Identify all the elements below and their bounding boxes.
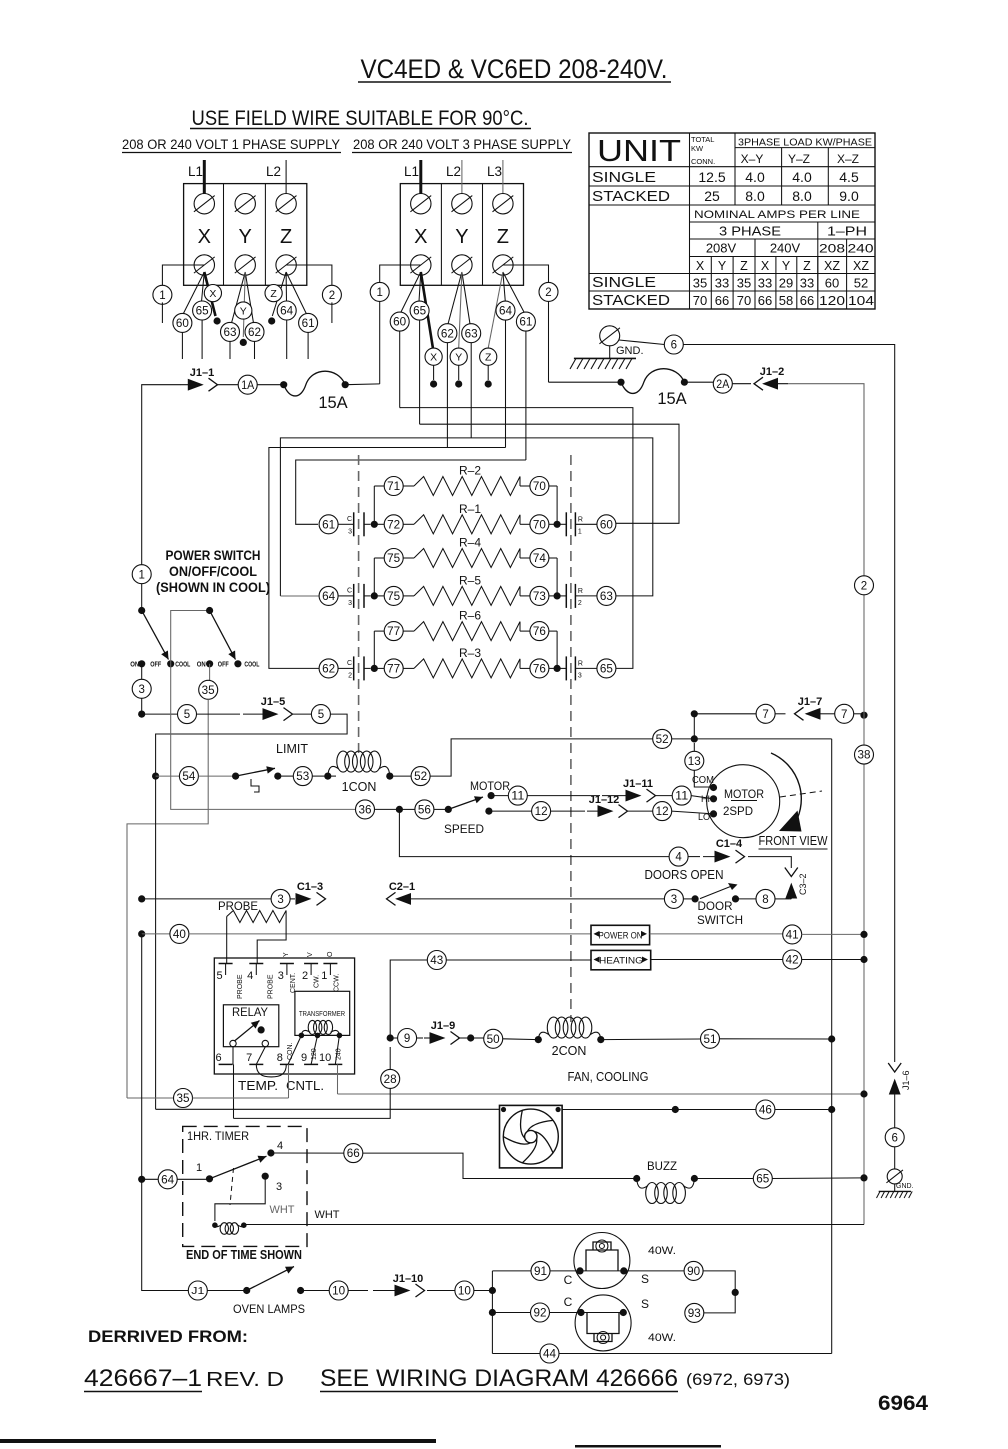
wire 35 down to corner then left-down (gray) bbox=[127, 699, 208, 1098]
label C1-3 bbox=[297, 881, 323, 893]
label Y (rot) bbox=[283, 952, 290, 957]
wire X screw to node 1 (3ph) bbox=[380, 265, 421, 283]
svg-text:52: 52 bbox=[854, 276, 868, 291]
svg-text:63: 63 bbox=[224, 327, 237, 339]
label 40W. (lamp2) bbox=[648, 1332, 676, 1344]
wire top row ends down bbox=[374, 631, 557, 668]
speed switch blade bbox=[448, 796, 483, 809]
node 71 (row) bbox=[384, 477, 530, 496]
label CCW. (rot) bbox=[334, 974, 341, 992]
wire motor box right edge down bbox=[831, 739, 833, 1039]
wire 36-junction down to 4-row bbox=[399, 809, 669, 856]
svg-text:PROBE: PROBE bbox=[268, 974, 275, 999]
wire 43 left corner down bbox=[387, 960, 428, 1042]
label REV. D bbox=[206, 1369, 284, 1391]
limit switch blade bbox=[236, 766, 275, 776]
junction dot right bbox=[549, 521, 566, 528]
node 35 (below S2) bbox=[199, 680, 218, 699]
svg-text:GND.: GND. bbox=[616, 345, 644, 357]
border bar bottom middle bbox=[575, 1445, 721, 1448]
node 50 bbox=[484, 1029, 503, 1048]
svg-text:1A: 1A bbox=[241, 380, 254, 392]
node 10 (right) bbox=[427, 1281, 474, 1300]
node 2 (3ph) bbox=[539, 282, 558, 301]
node 65 (buzz) bbox=[694, 1169, 772, 1188]
label ON/OFF/COOL bbox=[169, 564, 257, 579]
screw Z top (1ph) bbox=[276, 194, 297, 214]
label CON. (rot) bbox=[287, 1042, 294, 1060]
wire 64 feed horizontal bbox=[280, 595, 319, 597]
wire 5-row left bbox=[142, 713, 178, 715]
wire fan Z to 64 (1ph) bbox=[285, 272, 287, 302]
svg-text:C: C bbox=[347, 660, 352, 667]
svg-text:2: 2 bbox=[302, 970, 308, 982]
wire 10 to lamp splits bbox=[474, 1287, 496, 1294]
node 63 (bank output) bbox=[575, 586, 616, 605]
svg-text:FAN, COOLING: FAN, COOLING bbox=[568, 1070, 649, 1084]
wire Y down (1ph, gray) bbox=[240, 272, 247, 346]
node 72 (row) bbox=[384, 515, 530, 534]
svg-text:CENT.: CENT. bbox=[290, 973, 297, 993]
svg-text:O: O bbox=[327, 951, 334, 957]
label 15A (left fuse) bbox=[318, 394, 347, 412]
label Z (1ph) bbox=[280, 226, 292, 248]
label X (1ph) bbox=[198, 226, 211, 248]
coil 2CON bbox=[538, 1017, 604, 1043]
terminal 9 (temp cntl bottom) bbox=[301, 1052, 318, 1064]
svg-text:X: X bbox=[430, 351, 437, 363]
svg-text:X: X bbox=[209, 288, 216, 300]
svg-text:3: 3 bbox=[278, 970, 284, 982]
svg-text:R–5: R–5 bbox=[459, 573, 481, 587]
svg-text:J1–11: J1–11 bbox=[623, 778, 653, 790]
node 65 (1ph) bbox=[193, 301, 212, 359]
fuse F2 15A bbox=[617, 369, 688, 394]
svg-text:62: 62 bbox=[322, 664, 335, 676]
label POWER SWITCH bbox=[166, 548, 261, 563]
svg-text:76: 76 bbox=[533, 664, 546, 676]
label MOTOR bbox=[724, 787, 764, 801]
svg-text:1HR. TIMER: 1HR. TIMER bbox=[187, 1131, 249, 1143]
label S (lamp2) bbox=[641, 1297, 649, 1311]
svg-text:R–3: R–3 bbox=[459, 646, 481, 660]
svg-text:Z: Z bbox=[740, 259, 748, 273]
node 60 (bank output) bbox=[575, 515, 616, 534]
wire J1-2 to right bus A bbox=[789, 384, 864, 580]
timer pivot (contact 1) bbox=[196, 1162, 213, 1182]
node 70 (row) bbox=[530, 477, 549, 496]
svg-text:65: 65 bbox=[196, 306, 209, 318]
svg-text:4: 4 bbox=[277, 1140, 283, 1152]
label ON (S2) bbox=[197, 661, 206, 668]
label X (3ph) bbox=[414, 226, 427, 248]
wire from J1-1 corner to left bus bbox=[142, 385, 181, 565]
svg-text:54: 54 bbox=[182, 771, 196, 783]
wire 54 to limit switch bbox=[198, 775, 235, 777]
wire J1-9 to 50 bbox=[458, 1034, 484, 1041]
node 74 (row) bbox=[530, 549, 549, 568]
svg-text:25: 25 bbox=[704, 188, 720, 204]
wire drop 65 to H2 bbox=[419, 320, 421, 424]
junction dot 64-row bbox=[138, 1176, 145, 1183]
svg-text:92: 92 bbox=[534, 1308, 547, 1320]
motor shaft dashed bbox=[780, 791, 822, 797]
node Z (3ph) bbox=[480, 348, 497, 388]
svg-text:C2–1: C2–1 bbox=[389, 881, 415, 893]
svg-text:120: 120 bbox=[819, 293, 845, 308]
svg-text:R–1: R–1 bbox=[459, 502, 481, 516]
svg-text:CNTL.: CNTL. bbox=[286, 1079, 324, 1093]
wire fan Z to 61 (3ph) bbox=[503, 272, 525, 313]
node Z (1ph) bbox=[265, 285, 282, 302]
svg-text:9.0: 9.0 bbox=[839, 188, 859, 204]
junction dot right bbox=[549, 592, 566, 599]
svg-text:J1–2: J1–2 bbox=[760, 366, 784, 378]
svg-text:72: 72 bbox=[387, 519, 400, 531]
timer contact 4 bbox=[267, 1140, 283, 1157]
svg-text:Y: Y bbox=[455, 226, 468, 248]
relay wiring to terminals bbox=[233, 1047, 286, 1077]
switch S1 blade to COOL bbox=[142, 611, 169, 660]
box 1HR TIMER (dashed) bbox=[183, 1126, 307, 1246]
ground hatch (supply) bbox=[570, 346, 636, 369]
svg-text:52: 52 bbox=[656, 734, 669, 746]
svg-text:90: 90 bbox=[687, 1266, 700, 1278]
label GND. bbox=[616, 345, 644, 357]
wire 7-row bbox=[694, 713, 756, 715]
svg-text:HEATING: HEATING bbox=[599, 956, 643, 967]
lamp2 terminals bbox=[577, 1309, 627, 1316]
svg-text:X: X bbox=[198, 226, 211, 248]
ground screw GND bbox=[599, 326, 619, 346]
label MOTOR (switch) bbox=[470, 779, 510, 793]
label ON (S1) bbox=[130, 661, 139, 668]
svg-text:SINGLE: SINGLE bbox=[592, 275, 656, 291]
junction dot 40-row on left bus bbox=[138, 930, 145, 937]
svg-text:35: 35 bbox=[693, 276, 707, 291]
svg-text:208 OR 240 VOLT 1 PHASE SUPPLY: 208 OR 240 VOLT 1 PHASE SUPPLY bbox=[122, 137, 340, 152]
svg-text:41: 41 bbox=[786, 930, 799, 942]
label C3-2 (rotated) bbox=[798, 873, 808, 895]
label 2SPD bbox=[723, 804, 753, 818]
svg-text:DOORS OPEN: DOORS OPEN bbox=[645, 868, 724, 882]
node 5 (left) bbox=[178, 705, 197, 724]
label COOL (S2) bbox=[244, 661, 260, 668]
label WHT (inner) bbox=[270, 1204, 295, 1216]
svg-text:8: 8 bbox=[277, 1052, 283, 1064]
wire fan Z to 61 (1ph) bbox=[286, 272, 306, 314]
wire 66 to buzz row bbox=[363, 1153, 637, 1178]
node Y (1ph) bbox=[235, 302, 252, 319]
wire 52 to motor box corner bbox=[672, 735, 832, 742]
svg-text:63: 63 bbox=[600, 591, 613, 603]
label 40W. (lamp1) bbox=[648, 1245, 676, 1257]
speed switch pivot bbox=[434, 806, 452, 813]
svg-text:3: 3 bbox=[276, 1181, 282, 1193]
wire to J1-5 bbox=[197, 713, 241, 715]
wire fan Z to 64 (3ph) bbox=[503, 272, 505, 302]
node 52 (coil side) bbox=[390, 767, 430, 786]
wire 13 to COM bbox=[692, 770, 714, 787]
contact dot (lamp switch) bbox=[297, 1287, 304, 1294]
screw Z bottom (3ph) bbox=[492, 255, 513, 275]
label 240 (rot) bbox=[335, 1048, 342, 1060]
svg-text:3PHASE LOAD KW/PHASE: 3PHASE LOAD KW/PHASE bbox=[738, 137, 872, 149]
contact ON dot (S2) bbox=[206, 660, 213, 667]
svg-text:Z: Z bbox=[270, 288, 277, 300]
contact C2 (left) bbox=[338, 656, 370, 680]
svg-text:HI: HI bbox=[701, 794, 710, 804]
wire left bus corner to J1 bbox=[142, 934, 189, 1291]
junction dot left bbox=[371, 665, 385, 672]
label CW. (rot) bbox=[314, 975, 321, 988]
svg-text:6964: 6964 bbox=[878, 1392, 928, 1415]
node 92 bbox=[531, 1303, 550, 1322]
svg-text:208: 208 bbox=[819, 244, 845, 256]
lamp1 terminals bbox=[576, 1267, 627, 1274]
terminal 10 (temp cntl bottom) bbox=[319, 1052, 342, 1064]
svg-text:MOTOR: MOTOR bbox=[724, 787, 764, 801]
wire L1 through X circle (1ph, bold) bbox=[204, 272, 220, 325]
node 1 (power switch) bbox=[132, 565, 151, 584]
svg-text:C: C bbox=[347, 516, 352, 523]
wire J1-6 to node 6 bbox=[894, 1096, 896, 1128]
svg-text:64: 64 bbox=[322, 591, 336, 603]
label FRONT VIEW bbox=[759, 834, 828, 849]
node 6 (bottom) bbox=[885, 1128, 904, 1147]
svg-text:Y: Y bbox=[718, 259, 727, 273]
svg-text:C3–2: C3–2 bbox=[798, 873, 808, 895]
svg-text:TEMP.: TEMP. bbox=[238, 1079, 278, 1093]
node 10 (left) bbox=[301, 1281, 349, 1300]
svg-text:J1–7: J1–7 bbox=[798, 696, 822, 708]
label TEMP. CNTL. bbox=[238, 1079, 324, 1093]
svg-text:35: 35 bbox=[177, 1093, 190, 1105]
label Y (1ph) bbox=[239, 226, 252, 248]
svg-text:STACKED: STACKED bbox=[592, 293, 670, 309]
svg-text:SPEED: SPEED bbox=[444, 822, 484, 836]
svg-text:CONN.: CONN. bbox=[691, 157, 715, 166]
node 41 bbox=[783, 925, 802, 944]
svg-text:11: 11 bbox=[511, 791, 524, 803]
label J1-12 bbox=[589, 794, 620, 806]
node 76 (row) bbox=[530, 659, 549, 678]
svg-text:2SPD: 2SPD bbox=[723, 804, 753, 818]
svg-text:X: X bbox=[696, 259, 705, 273]
wire fuse1 to 3ph node 1 bbox=[345, 383, 380, 386]
node 76 (row) bbox=[530, 622, 549, 641]
wire lamp1 to 90 bbox=[624, 1270, 684, 1272]
node 35 (lower) bbox=[127, 1089, 193, 1108]
wire top row ends down bbox=[374, 558, 557, 596]
label SWITCH bbox=[697, 913, 743, 927]
wire fan X to 60 (3ph) bbox=[401, 272, 421, 313]
wire fan X to 60 (1ph) bbox=[183, 272, 204, 314]
label C2-1 bbox=[389, 881, 415, 893]
lamp switch blade bbox=[247, 1267, 294, 1291]
node X (3ph) bbox=[425, 348, 442, 388]
wire node6 to right bus B bbox=[683, 345, 894, 1063]
svg-text:70: 70 bbox=[737, 293, 751, 308]
node 66 bbox=[344, 1144, 363, 1163]
terminal block TB2 (3 phase) bbox=[400, 184, 523, 286]
junction dot left bbox=[371, 592, 385, 599]
svg-text:52: 52 bbox=[414, 771, 427, 783]
svg-text:4: 4 bbox=[675, 852, 682, 864]
svg-text:1–PH: 1–PH bbox=[827, 225, 867, 239]
junction dot right bbox=[549, 665, 566, 672]
dot COM bbox=[710, 784, 717, 791]
svg-text:208V: 208V bbox=[706, 241, 737, 256]
svg-text:MOTOR: MOTOR bbox=[470, 779, 510, 793]
terminal 6 (temp cntl bottom) bbox=[215, 1052, 232, 1064]
wire drop 62 to H4 bbox=[446, 343, 448, 448]
label COOL (S1) bbox=[175, 661, 191, 668]
svg-text:VC4ED & VC6ED 208-240V.: VC4ED & VC6ED 208-240V. bbox=[361, 54, 668, 84]
wire 41 to bus A bbox=[802, 931, 868, 938]
wire 50 to 2CON bbox=[503, 1036, 542, 1043]
svg-text:USE FIELD WIRE SUITABLE FOR 90: USE FIELD WIRE SUITABLE FOR 90°C. bbox=[192, 107, 529, 130]
svg-text:J1: J1 bbox=[191, 1286, 205, 1297]
label L1 (3ph) bbox=[404, 164, 419, 179]
label (6972, 6973) bbox=[686, 1370, 790, 1389]
svg-text:X: X bbox=[761, 259, 770, 273]
label PROBE (rot, term5) bbox=[237, 974, 244, 999]
connector J1-6 (vertical) bbox=[888, 1063, 901, 1096]
title VC4ED & VC6ED 208-240V. bbox=[358, 54, 671, 84]
svg-text:62: 62 bbox=[248, 327, 261, 339]
box TEMP CNTL outline bbox=[214, 958, 354, 1074]
svg-text:8.0: 8.0 bbox=[745, 188, 765, 204]
svg-text:60: 60 bbox=[825, 276, 839, 291]
svg-text:64: 64 bbox=[499, 306, 513, 318]
svg-text:R: R bbox=[578, 588, 583, 595]
contact COOL dot (S2) bbox=[234, 660, 241, 667]
wire 64 to timer pivot bbox=[177, 1178, 209, 1180]
resistor R-2 bbox=[414, 464, 520, 496]
label L3 (3ph) bbox=[487, 164, 502, 179]
wire 12 to J1-12 bbox=[551, 810, 585, 812]
svg-text:STACKED: STACKED bbox=[592, 189, 670, 205]
connector J1-5 bbox=[243, 708, 293, 721]
svg-text:1: 1 bbox=[376, 287, 382, 299]
svg-text:33: 33 bbox=[758, 276, 772, 291]
svg-text:6: 6 bbox=[671, 340, 677, 352]
node 3 (door) bbox=[664, 889, 698, 908]
label J1-6 (rotated) bbox=[901, 1070, 911, 1090]
node 51 bbox=[701, 1029, 720, 1048]
wire Z screw to node 2 (3ph) bbox=[503, 265, 549, 283]
label 208 OR 240 VOLT 1 PHASE SUPPLY bbox=[122, 137, 341, 153]
svg-text:1: 1 bbox=[321, 970, 327, 982]
wire fan X to 65 (3ph) bbox=[419, 272, 421, 302]
node 11 (left) bbox=[491, 786, 527, 805]
svg-text:CON.: CON. bbox=[287, 1042, 294, 1060]
label J1-9 bbox=[431, 1020, 455, 1032]
node 62 (bank input) bbox=[319, 659, 338, 678]
wire top row ends down bbox=[374, 486, 557, 524]
node 46 bbox=[756, 1100, 775, 1119]
wire L2 supply (3ph, gray) bbox=[461, 160, 463, 204]
svg-text:71: 71 bbox=[387, 481, 400, 493]
svg-text:OFF: OFF bbox=[150, 661, 162, 668]
node 36 bbox=[356, 800, 375, 819]
svg-text:SWITCH: SWITCH bbox=[697, 913, 743, 927]
wire J1 to lamp switch bbox=[207, 1290, 246, 1292]
node 43 bbox=[427, 951, 446, 970]
contact dot (limit) bbox=[274, 773, 281, 780]
svg-text:Y: Y bbox=[239, 226, 252, 248]
motor M1 2SPD circle bbox=[707, 765, 780, 838]
node 53 bbox=[278, 767, 313, 786]
node 12 (left) bbox=[489, 802, 551, 821]
svg-text:1: 1 bbox=[159, 290, 165, 302]
contact R3 (right) bbox=[566, 656, 583, 680]
svg-text:CCW.: CCW. bbox=[334, 974, 341, 992]
relay blade bbox=[235, 1021, 265, 1042]
screw Z bottom (1ph) bbox=[276, 255, 297, 275]
svg-text:L1: L1 bbox=[188, 164, 203, 179]
node 91 bbox=[531, 1261, 550, 1280]
svg-text:Y: Y bbox=[240, 305, 247, 317]
svg-text:J1–9: J1–9 bbox=[431, 1020, 455, 1032]
wire 13-junction up to 7-row bbox=[691, 710, 698, 739]
label 426667-1 bbox=[84, 1365, 202, 1392]
svg-text:R–4: R–4 bbox=[459, 536, 481, 550]
node 75 (row) bbox=[384, 549, 530, 568]
svg-text:L1: L1 bbox=[404, 164, 419, 179]
box RELAY bbox=[223, 1005, 278, 1047]
svg-text:WHT: WHT bbox=[315, 1209, 340, 1221]
doors-open blade arrow bbox=[700, 883, 738, 899]
svg-text:7: 7 bbox=[246, 1052, 252, 1064]
svg-text:END OF TIME SHOWN: END OF TIME SHOWN bbox=[186, 1248, 302, 1262]
label 1HR. TIMER bbox=[187, 1131, 249, 1143]
junction dot left bbox=[371, 521, 385, 528]
wire Z down (1ph) bbox=[268, 272, 286, 325]
terminal 8 (temp cntl bottom) bbox=[277, 1052, 294, 1064]
svg-text:70: 70 bbox=[693, 293, 707, 308]
node 61 (bank input) bbox=[319, 515, 338, 534]
svg-text:Y: Y bbox=[782, 259, 791, 273]
node 2 (bus A) bbox=[855, 576, 874, 595]
label CENT. (rot) bbox=[290, 973, 297, 993]
svg-text:12: 12 bbox=[535, 806, 548, 818]
screw X bottom (1ph) bbox=[194, 255, 215, 275]
svg-text:44: 44 bbox=[543, 1349, 557, 1361]
label OFF (S2) bbox=[218, 661, 230, 668]
label END OF TIME SHOWN bbox=[186, 1248, 302, 1262]
wire drop 60 to H1 bbox=[399, 331, 402, 407]
svg-text:OVEN LAMPS: OVEN LAMPS bbox=[233, 1302, 305, 1316]
node 13 bbox=[685, 743, 704, 770]
wire 155-bus to fan box bbox=[156, 1108, 500, 1110]
screw Y bottom (3ph) bbox=[451, 255, 472, 275]
connector J1-2 bbox=[754, 377, 789, 390]
node 9 bbox=[398, 1029, 417, 1048]
svg-text:S: S bbox=[641, 1297, 649, 1311]
svg-text:2CON: 2CON bbox=[552, 1044, 587, 1058]
switch S2 blade to COOL bbox=[210, 611, 236, 660]
dot HI bbox=[701, 794, 717, 804]
svg-text:Z: Z bbox=[280, 226, 292, 248]
svg-text:35: 35 bbox=[737, 276, 751, 291]
wire fan Y to 62 (3ph) bbox=[448, 272, 462, 324]
connector C1-4 bbox=[688, 850, 744, 863]
label S (lamp1) bbox=[641, 1272, 649, 1286]
svg-text:10: 10 bbox=[319, 1052, 331, 1064]
wire terminal 8 (CON) down bbox=[288, 1064, 290, 1098]
